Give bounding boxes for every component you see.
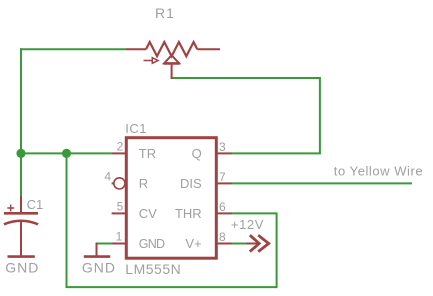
ground symbol at pin 1: lead: [96, 243, 98, 257]
svg-text:6: 6: [219, 200, 226, 214]
wire: THR (pin 6) horizontal: [232, 212, 278, 214]
wire: wiper of R1 to right loop: [171, 77, 321, 79]
wire: V+ (pin 8) to supply: [232, 243, 247, 245]
pin 4 R stub: [112, 182, 114, 184]
wire: pin 1 to ground: [97, 243, 112, 245]
svg-text:R: R: [139, 176, 148, 191]
svg-text:TR: TR: [139, 146, 156, 161]
pin 5 CV stub: [112, 212, 126, 214]
svg-text:+12V: +12V: [231, 217, 264, 232]
wire: left vertical rail: [20, 48, 22, 197]
svg-text:LM555N: LM555N: [125, 261, 181, 277]
resistor R1 wiper triangle: [164, 55, 180, 63]
svg-text:V+: V+: [185, 236, 201, 251]
capacitor C1 curved plate: [4, 221, 38, 225]
svg-text:CV: CV: [139, 206, 157, 221]
wire: top horizontal rail: [20, 48, 126, 50]
wire: right loop vertical down to Q: [319, 77, 321, 154]
pin 3 Q stub: [217, 152, 232, 154]
pin 2 TR stub: [112, 152, 126, 154]
resistor R1 adjust arrow: [144, 58, 159, 64]
ground symbol at pin 1: bar: [84, 255, 110, 258]
op IC1 body outline (LM555N): [126, 138, 216, 259]
svg-text:7: 7: [219, 170, 226, 184]
supply +12V lead: [247, 243, 259, 245]
svg-text:Q: Q: [192, 146, 202, 161]
pin 8 V+ stub: [217, 243, 232, 245]
pin 6 THR stub: [217, 212, 232, 214]
wire: Q (pin 3) horizontal: [232, 152, 321, 154]
resistor R1 left lead: [126, 48, 146, 50]
svg-text:GND: GND: [139, 237, 165, 251]
pin 7 DIS stub: [217, 182, 232, 184]
supply +12V chevron 2: [258, 235, 269, 251]
wire: DIS (pin 7) to yellow wire: [232, 182, 412, 184]
wire: node wire to pin 2 (TR): [21, 152, 112, 154]
capacitor C1 top lead: [20, 196, 22, 213]
svg-text:GND: GND: [5, 260, 39, 276]
svg-text:R1: R1: [155, 5, 175, 21]
svg-text:1: 1: [116, 230, 123, 244]
svg-text:2: 2: [117, 140, 124, 154]
svg-text:to Yellow Wire: to Yellow Wire: [334, 164, 423, 179]
svg-text:5: 5: [117, 200, 124, 214]
wire: bottom horizontal run: [66, 286, 278, 288]
resistor R1 wiper lead: [171, 64, 173, 79]
wire: branch vertical down: [66, 153, 68, 288]
junction dot: left rail / TR net: [16, 149, 25, 158]
capacitor C1 bottom lead: [20, 221, 22, 256]
wire: right vertical up to THR: [276, 213, 278, 288]
capacitor C1 plus sign: [7, 205, 14, 212]
svg-text:C1: C1: [27, 197, 44, 212]
capacitor C1 top plate: [4, 212, 38, 215]
svg-text:4: 4: [104, 170, 111, 184]
ground symbol under C1: [8, 255, 35, 258]
svg-text:3: 3: [219, 140, 226, 154]
svg-text:8: 8: [219, 230, 226, 244]
svg-text:IC1: IC1: [125, 121, 147, 136]
junction dot: branch to THR loop: [62, 149, 71, 158]
svg-text:THR: THR: [175, 206, 202, 221]
pin 1 GND stub: [112, 243, 126, 245]
supply +12V chevron 1: [250, 235, 259, 251]
resistor R1 right lead: [197, 48, 220, 50]
svg-text:GND: GND: [82, 260, 116, 276]
pin 4 inversion bubble: [114, 178, 125, 189]
resistor R1 body (zigzag): [146, 42, 197, 56]
svg-text:DIS: DIS: [180, 176, 202, 191]
